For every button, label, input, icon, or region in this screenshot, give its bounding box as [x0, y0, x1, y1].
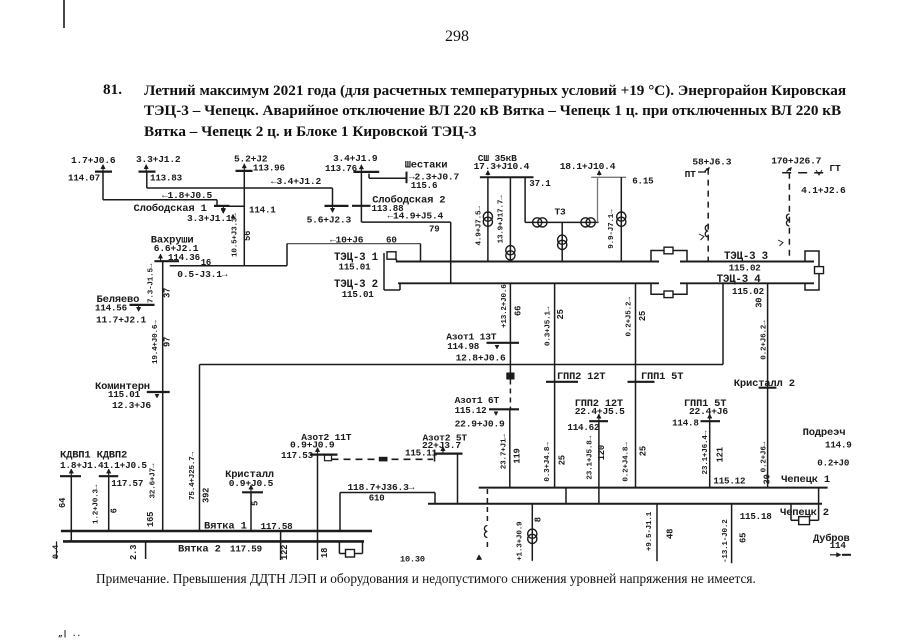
- svg-text:25: 25: [556, 309, 566, 319]
- svg-text:1.7+J0.6: 1.7+J0.6: [71, 155, 116, 166]
- svg-text:6.15: 6.15: [632, 176, 654, 187]
- svg-text:5: 5: [251, 501, 261, 506]
- svg-text:+1.3+J0.9: +1.3+J0.9: [517, 521, 525, 561]
- svg-text:113.83: 113.83: [150, 173, 183, 184]
- svg-text:22.4+J6: 22.4+J6: [689, 406, 728, 417]
- svg-text:25: 25: [638, 311, 648, 321]
- svg-text:17.3+J10.4: 17.3+J10.4: [474, 161, 530, 172]
- svg-text:65: 65: [739, 533, 749, 543]
- svg-text:114.98: 114.98: [447, 341, 480, 352]
- svg-text:117.57: 117.57: [111, 478, 143, 489]
- svg-text:0.2+J4.8→: 0.2+J4.8→: [623, 442, 631, 482]
- svg-text:8: 8: [534, 517, 544, 522]
- svg-text:30: 30: [763, 474, 773, 484]
- svg-text:23.1+J5.8→: 23.1+J5.8→: [587, 435, 595, 479]
- svg-text:58+J6.3: 58+J6.3: [692, 157, 731, 168]
- svg-text:22.9+J0.9: 22.9+J0.9: [455, 419, 505, 430]
- svg-text:165: 165: [146, 512, 156, 527]
- svg-text:114.8: 114.8: [672, 418, 699, 429]
- svg-text:10.5+J3.3→: 10.5+J3.3→: [232, 213, 240, 257]
- svg-text:66: 66: [514, 306, 524, 316]
- svg-text:9.9-J7.1→: 9.9-J7.1→: [608, 209, 616, 249]
- svg-text:Подреэч: Подреэч: [803, 427, 846, 439]
- svg-text:114.62: 114.62: [567, 422, 599, 433]
- svg-text:19.4+J0.6→: 19.4+J0.6→: [152, 320, 160, 364]
- svg-text:30: 30: [755, 298, 765, 308]
- svg-text:23.1+J6.4→: 23.1+J6.4→: [702, 430, 710, 474]
- svg-text:0.9+J0.9: 0.9+J0.9: [290, 440, 335, 451]
- svg-text:22.4+J5.5: 22.4+J5.5: [575, 406, 625, 417]
- svg-text:64: 64: [58, 497, 68, 508]
- svg-text:Т3: Т3: [555, 207, 567, 218]
- svg-text:115.6: 115.6: [411, 180, 438, 191]
- svg-text:121: 121: [716, 447, 726, 462]
- svg-text:0.2+J6.2→: 0.2+J6.2→: [761, 320, 769, 360]
- svg-text:118.7+J36.3→: 118.7+J36.3→: [348, 482, 415, 493]
- svg-text:114.56: 114.56: [95, 302, 127, 313]
- svg-text:4.9+J7.5→: 4.9+J7.5→: [476, 206, 484, 246]
- svg-text:3.3+J1.2: 3.3+J1.2: [136, 154, 181, 165]
- svg-text:25: 25: [558, 455, 568, 465]
- svg-text:13.9+J17.7→: 13.9+J17.7→: [498, 195, 506, 244]
- svg-text:37: 37: [163, 288, 173, 298]
- svg-text:2.3: 2.3: [129, 545, 139, 560]
- svg-text:ГПП1 5Т: ГПП1 5Т: [641, 371, 683, 383]
- svg-text:←14.9+J5.4: ←14.9+J5.4: [388, 210, 444, 221]
- svg-text:117.59: 117.59: [230, 544, 262, 555]
- svg-text:4.1+J2.6: 4.1+J2.6: [801, 185, 846, 196]
- svg-text:115.01: 115.01: [339, 261, 372, 272]
- svg-text:115.02: 115.02: [732, 286, 764, 297]
- svg-text:←1.8+J0.5: ←1.8+J0.5: [162, 190, 212, 201]
- svg-text:5.6+J2.3: 5.6+J2.3: [307, 215, 352, 226]
- svg-text:114: 114: [830, 540, 847, 551]
- svg-text:114.1: 114.1: [249, 205, 276, 216]
- svg-text:0.2+J0: 0.2+J0: [817, 457, 849, 468]
- svg-text:114.9: 114.9: [825, 439, 852, 450]
- svg-text:10.30: 10.30: [400, 554, 425, 564]
- svg-text:ПТ: ПТ: [685, 169, 697, 180]
- svg-text:0.2+J5.2→: 0.2+J5.2→: [626, 297, 634, 337]
- svg-text:23.7+J1→: 23.7+J1→: [501, 434, 509, 469]
- svg-text:115.12: 115.12: [455, 405, 487, 416]
- svg-text:120: 120: [597, 445, 607, 460]
- svg-text:48: 48: [666, 529, 676, 539]
- svg-text:115.02: 115.02: [729, 263, 761, 274]
- svg-text:6: 6: [110, 508, 120, 513]
- svg-text:1.8+J1.41.1+J0.5: 1.8+J1.41.1+J0.5: [60, 460, 147, 471]
- svg-text:0.4: 0.4: [52, 545, 61, 559]
- svg-text:3.3+J1.1: 3.3+J1.1: [187, 213, 232, 224]
- svg-text:Вятка 1: Вятка 1: [204, 520, 247, 532]
- svg-text:0.3+J4.8→: 0.3+J4.8→: [544, 442, 552, 482]
- svg-text:+13.2+J0.6: +13.2+J0.6: [501, 284, 509, 328]
- svg-text:„| ..: „| ..: [58, 630, 81, 639]
- svg-text:←3.4+J1.2: ←3.4+J1.2: [271, 176, 321, 187]
- svg-text:115.01: 115.01: [108, 389, 141, 400]
- svg-text:18: 18: [320, 548, 330, 558]
- svg-text:Чепецк 1: Чепецк 1: [781, 474, 830, 486]
- svg-text:0.5-J3.1→: 0.5-J3.1→: [177, 269, 227, 280]
- svg-text:122: 122: [280, 545, 290, 560]
- svg-text:Шестаки: Шестаки: [405, 159, 448, 171]
- svg-text:75.4+J25.7→: 75.4+J25.7→: [189, 451, 197, 500]
- svg-text:170+J26.7: 170+J26.7: [771, 155, 821, 166]
- svg-text:-13.1-J0.2: -13.1-J0.2: [722, 519, 730, 563]
- svg-text:610: 610: [369, 494, 385, 504]
- svg-text:119: 119: [513, 448, 523, 463]
- svg-text:25: 25: [639, 446, 649, 456]
- svg-text:113.76: 113.76: [325, 163, 357, 174]
- svg-text:1.2+J0.3→: 1.2+J0.3→: [93, 484, 101, 524]
- svg-text:32.6+J7→: 32.6+J7→: [150, 463, 158, 498]
- svg-text:16: 16: [201, 258, 211, 268]
- svg-text:97: 97: [163, 337, 173, 347]
- svg-text:392: 392: [202, 488, 212, 503]
- svg-text:ГПП2 12Т: ГПП2 12Т: [557, 371, 605, 383]
- svg-text:0.3+J5.1→: 0.3+J5.1→: [545, 306, 553, 346]
- svg-text:ТЭЦ-3 3: ТЭЦ-3 3: [724, 251, 768, 263]
- svg-text:ГТ: ГТ: [829, 163, 841, 174]
- svg-text:37.1: 37.1: [529, 178, 551, 189]
- svg-text:0.2+J6→: 0.2+J6→: [761, 441, 769, 472]
- svg-text:115.12: 115.12: [713, 476, 745, 487]
- svg-text:117.53: 117.53: [281, 450, 314, 461]
- svg-text:11.7+J2.1: 11.7+J2.1: [96, 315, 146, 326]
- svg-text:18.1+J10.4: 18.1+J10.4: [560, 161, 616, 172]
- svg-text:115.18: 115.18: [740, 511, 773, 522]
- svg-text:113.96: 113.96: [253, 162, 285, 173]
- svg-text:12.8+J0.6: 12.8+J0.6: [456, 352, 506, 363]
- svg-text:79: 79: [429, 224, 439, 234]
- svg-text:56: 56: [243, 231, 253, 241]
- svg-text:114.07: 114.07: [68, 173, 100, 184]
- svg-text:12.3+J6: 12.3+J6: [112, 400, 151, 411]
- svg-text:7.3-J1.5→: 7.3-J1.5→: [148, 263, 156, 303]
- svg-text:Вятка 2: Вятка 2: [178, 544, 221, 556]
- svg-text:115.01: 115.01: [342, 289, 375, 300]
- svg-text:117.58: 117.58: [261, 521, 294, 532]
- svg-text:+9.5-J1.1: +9.5-J1.1: [646, 511, 654, 551]
